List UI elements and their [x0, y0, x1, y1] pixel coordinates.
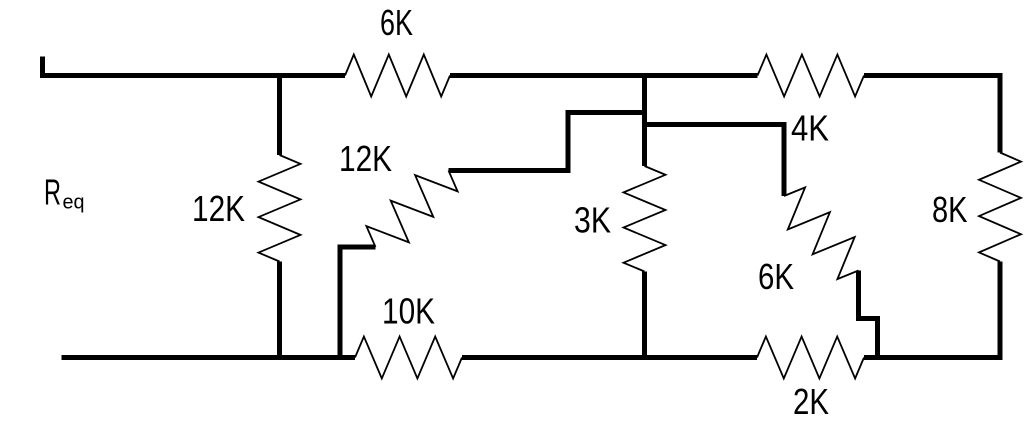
svg-text:6K: 6K	[380, 2, 413, 43]
svg-text:10K: 10K	[382, 291, 435, 332]
wire top middle (6K to 4K)	[450, 73, 758, 78]
svg-text:12K: 12K	[339, 138, 392, 179]
svg-text:12K: 12K	[192, 188, 245, 229]
resistor 12K (diagonal)	[366, 171, 457, 248]
resistor 4K	[758, 55, 865, 97]
wire bottom left	[62, 355, 356, 360]
wire top left (terminal to 6K)	[40, 73, 345, 78]
wire 6K-diagonal branch bottom step	[859, 271, 878, 361]
svg-text:eq: eq	[63, 192, 85, 214]
svg-text:6K: 6K	[758, 256, 794, 297]
wire 6K-diagonal branch top	[645, 125, 785, 197]
wire 12K-diagonal branch bottom L	[340, 247, 376, 360]
resistor 2K	[757, 337, 864, 379]
wire 12K branch lower	[277, 262, 282, 361]
svg-text:2K: 2K	[793, 381, 829, 422]
svg-text:3K: 3K	[574, 200, 611, 241]
svg-text:R: R	[44, 172, 61, 213]
resistor 10K	[355, 337, 462, 379]
wire 12K branch upper	[277, 73, 282, 155]
wire bottom middle (2K to 10K)	[462, 355, 757, 360]
resistor 6K (top)	[345, 55, 450, 97]
wire 3K branch lower	[642, 272, 647, 361]
svg-text:8K: 8K	[932, 189, 968, 230]
wire 3K branch upper	[642, 73, 647, 166]
resistor 6K (diagonal)	[784, 187, 859, 279]
wire right bottom corner	[864, 262, 1000, 358]
resistor 8K	[979, 153, 1021, 262]
wire 12K-diagonal branch top step	[449, 113, 646, 171]
resistor 3K	[624, 166, 666, 272]
resistor 12K (left vertical)	[259, 155, 301, 262]
wire top right corner down to 8K	[864, 76, 1000, 153]
terminal stub top-left	[40, 57, 45, 76]
svg-text:4K: 4K	[791, 108, 829, 149]
